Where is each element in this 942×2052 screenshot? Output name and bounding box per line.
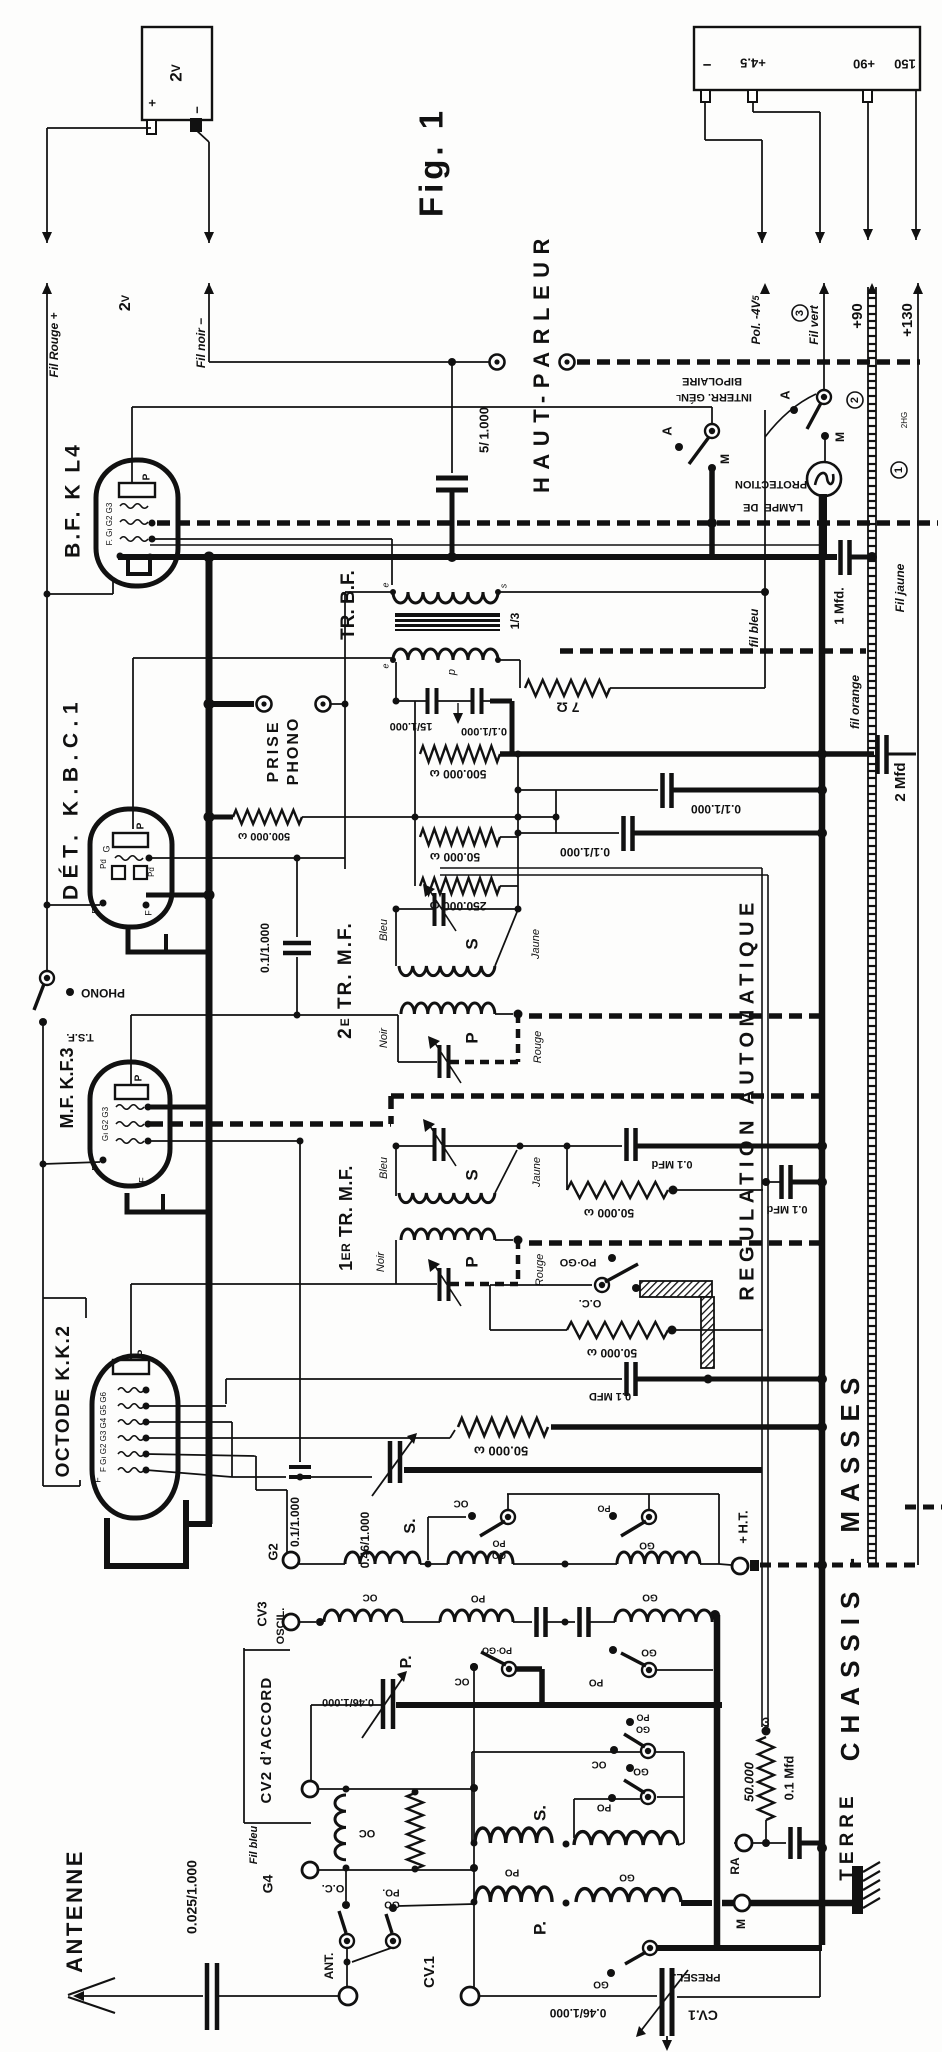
svg-text:fil orange: fil orange <box>848 675 862 729</box>
svg-text:O.C.: O.C. <box>322 1882 345 1894</box>
wire avc frame to cap <box>768 1181 780 1183</box>
trmf1 p trimmer <box>440 1268 449 1301</box>
wire fil noir down <box>208 142 210 243</box>
terminal G2 <box>283 1552 299 1568</box>
svg-text:CHASSIS - MASSES: CHASSIS - MASSES <box>835 1369 865 1762</box>
svg-text:7 Ω: 7 Ω <box>557 699 580 715</box>
KF3 plate lead <box>130 1015 132 1085</box>
g2 to coil <box>299 1563 345 1565</box>
terminal M <box>734 1895 750 1911</box>
ladder wire +90 orange <box>868 287 876 1563</box>
lever osc p1 <box>481 1652 506 1665</box>
svg-text:B.F. K L4: B.F. K L4 <box>62 442 85 558</box>
avc vertical 415 <box>414 701 416 886</box>
junction rail phono <box>204 699 215 710</box>
cv1 line right <box>677 1996 820 1998</box>
antenna barb 1 <box>68 1978 115 1995</box>
KBC1 G pin <box>146 855 153 862</box>
terminal HP right <box>560 355 575 370</box>
terminal CV2 bottom <box>302 1862 318 1878</box>
svg-text:CV.1: CV.1 <box>688 2007 718 2023</box>
trmf2 s trimmer <box>435 893 444 926</box>
TRBF P right pin <box>495 657 501 663</box>
KK2 g wire B drop <box>231 1422 233 1477</box>
junction rail 790 <box>817 785 827 795</box>
resistor 50.000 avc <box>420 829 500 845</box>
contact ant pogo <box>389 1904 397 1912</box>
trmf2 p dashed side <box>516 1014 521 1062</box>
KBC1 grid wire <box>149 857 345 859</box>
ant sw1 down <box>346 1948 348 1987</box>
terminal CV1 left <box>461 1987 479 2005</box>
junction rail 1843 <box>817 1843 827 1853</box>
contact M pole2 <box>821 432 829 440</box>
tube OCTODE K.K.2 <box>92 1356 178 1518</box>
lever ant sw2 <box>386 1914 392 1933</box>
lever interr pole2 <box>807 403 821 429</box>
resistor 7 ohm <box>525 680 610 696</box>
junction HT dash rail <box>817 1560 827 1570</box>
svg-text:F. Gı G2 G3: F. Gı G2 G3 <box>105 502 114 545</box>
junction avc frame cap <box>762 1178 770 1186</box>
svg-text:P: P <box>136 822 147 829</box>
wire 0.1Mfd to rail <box>636 1144 822 1149</box>
svg-text:Rouge: Rouge <box>534 1254 546 1286</box>
svg-text:15/1.000: 15/1.000 <box>390 720 433 732</box>
oc coil dot <box>632 1284 640 1292</box>
KL4 F pin right <box>147 554 154 561</box>
svg-text:M: M <box>833 432 847 442</box>
svg-text:F: F <box>90 1165 100 1171</box>
svg-text:Fil noir −: Fil noir − <box>194 318 208 368</box>
svg-text:3: 3 <box>794 310 806 316</box>
trmf1 p node <box>514 1236 523 1245</box>
switch ant 2 <box>386 1934 400 1948</box>
KL4 grid G3 <box>120 537 148 542</box>
svg-text:S: S <box>462 938 481 949</box>
svg-text:1 Mfd.: 1 Mfd. <box>831 587 846 625</box>
wire speaker top <box>209 361 489 363</box>
junction phono grid <box>342 701 349 708</box>
cv3 node <box>316 1618 324 1626</box>
wire 250k to 518 <box>500 885 518 887</box>
rail fil noir - <box>208 283 210 362</box>
svg-text:2HG: 2HG <box>900 412 909 428</box>
KK2 g wire D drop <box>255 1456 257 1490</box>
osc s1 stem <box>507 1494 509 1510</box>
contact po-go dot <box>608 1254 616 1262</box>
resistor 50.000 osc2 <box>567 1322 668 1338</box>
oc box top <box>490 1284 592 1286</box>
svg-text:P: P <box>134 1074 145 1081</box>
arrowhead Pol-4V5 up <box>760 283 770 294</box>
osc P coil 3 GO <box>615 1610 712 1622</box>
trmf1 p trimmer arrow <box>433 1263 461 1306</box>
g step 1379 <box>225 1379 227 1404</box>
trimmer cv2 0.46 <box>383 1679 393 1729</box>
trmf1 node 520 <box>517 1143 524 1150</box>
antenna OC coil <box>335 1795 346 1860</box>
wire rail to phono jack <box>209 701 254 707</box>
arrowhead +90 up <box>867 283 877 294</box>
avc frame right outer <box>761 868 763 1727</box>
sp inner v <box>573 1799 575 1838</box>
terminal CV2 top <box>302 1781 318 1797</box>
svg-text:+ H.T.: + H.T. <box>735 1510 750 1543</box>
switch osc p2 <box>642 1663 656 1677</box>
KK2 grid 1 <box>118 1388 144 1393</box>
node 415 1792 <box>412 1789 419 1796</box>
trmf1 s node <box>393 1143 400 1150</box>
res50 bottom lead <box>765 1820 767 1843</box>
KK2 g wire E <box>146 1470 232 1477</box>
svg-text:BIPOLAIRE: BIPOLAIRE <box>682 375 742 387</box>
wire coupling left up <box>395 662 397 701</box>
switch interr pole2 <box>817 390 831 404</box>
rail fil bleu <box>764 410 766 688</box>
wire TRBF P left up <box>392 658 394 660</box>
trmf1 s left side <box>395 1146 397 1196</box>
svg-text:Fil jaune: Fil jaune <box>893 563 907 612</box>
svg-text:PO·GO: PO·GO <box>559 1256 596 1268</box>
osc s mid node <box>425 1561 432 1568</box>
svg-text:0.46/1.000: 0.46/1.000 <box>322 1696 374 1708</box>
arrowhead fil noir <box>204 232 214 243</box>
varcap padding 0.46 <box>390 1441 400 1483</box>
lever osc s2 <box>621 1521 646 1536</box>
long cv line <box>473 1667 475 1996</box>
trmf2 P coil <box>401 1003 495 1014</box>
trmf1 p left <box>395 1240 397 1284</box>
svg-text:1: 1 <box>893 467 905 473</box>
svg-text:GO: GO <box>639 1539 655 1550</box>
svg-text:S: S <box>462 1169 481 1180</box>
A contact arc <box>765 394 816 437</box>
svg-text:F: F <box>90 908 100 914</box>
wire +4.5 bend <box>753 111 820 113</box>
wire TRBF P right <box>498 659 520 661</box>
cap det upper <box>296 858 298 937</box>
svg-text:INTERR. GÉNL: INTERR. GÉNL <box>676 391 752 404</box>
svg-text:TR. B.F.: TR. B.F. <box>338 570 359 640</box>
avc frame right inner <box>767 875 769 1727</box>
svg-text:150: 150 <box>894 57 916 72</box>
svg-text:Pol. -4V5: Pol. -4V5 <box>749 295 763 345</box>
wire battery- slant <box>196 130 209 142</box>
avc vertical 556 <box>555 790 557 833</box>
wire cap5000 upper <box>451 362 453 473</box>
junction tsf rail KF3 <box>40 1161 47 1168</box>
svg-text:GO: GO <box>593 1978 609 1989</box>
svg-text:Fil Rouge +: Fil Rouge + <box>47 312 61 377</box>
rail HT main <box>819 494 826 1945</box>
svg-text:P.: P. <box>398 1655 415 1668</box>
TRBF primary P <box>393 649 498 660</box>
svg-text:O.C.: O.C. <box>579 1297 602 1309</box>
wire 7ohm drop <box>519 660 521 688</box>
junction bus rail209 <box>204 552 215 563</box>
kf3 plate line <box>131 1014 398 1016</box>
svg-text:Rouge: Rouge <box>532 1031 544 1063</box>
svg-text:CV2 d’ACCORD: CV2 d’ACCORD <box>258 1677 275 1804</box>
trmf2 s node <box>393 906 400 913</box>
capacitor CV1 presel <box>662 1968 672 2036</box>
earth hatch 4 <box>863 1889 880 1899</box>
junction cap5000 bus <box>447 552 457 562</box>
trmf1 p dashed side <box>516 1240 521 1284</box>
rail tsf <box>42 1022 44 1486</box>
wire KL4 g3 drop <box>391 539 393 585</box>
trmf2 p trimmer <box>440 1045 449 1078</box>
wire KBC1 plate drop <box>132 658 134 829</box>
KK2 g wire C bend <box>450 1430 455 1438</box>
50k if right <box>669 1186 678 1195</box>
resistor 50.000 osc main <box>458 1418 548 1436</box>
KK2 grid 4 <box>118 1436 144 1441</box>
svg-text:OC: OC <box>455 1675 470 1686</box>
svg-text:OC: OC <box>454 1497 469 1508</box>
svg-text:F: F <box>143 910 153 916</box>
wire 0.1MFD to rail <box>636 1377 822 1382</box>
KL4 grid G1 <box>120 504 148 509</box>
trimmer cv2 arrow <box>362 1676 404 1738</box>
junction rail 895 <box>204 890 215 901</box>
svg-text:GO: GO <box>619 1871 635 1882</box>
g line 1379 <box>226 1378 622 1380</box>
wire 2Mfd right <box>887 753 916 756</box>
resistor 250.000 <box>420 878 500 894</box>
KL4 filament drop left <box>47 593 113 595</box>
dashed bus 1096 <box>391 1093 820 1099</box>
trmf1 S coil <box>399 1193 495 1203</box>
thick line 754 <box>500 751 874 757</box>
wire avc cap to rail <box>791 1180 822 1185</box>
terminal HP left <box>490 355 505 370</box>
HT battery box <box>694 27 920 90</box>
sp inner h <box>574 1798 640 1800</box>
contact A pole2 <box>790 406 798 414</box>
KBC1 grid <box>115 856 143 861</box>
hatched OC coil vert <box>701 1297 714 1368</box>
wire 50k osc to rail <box>551 1424 822 1430</box>
junction avc 556 <box>553 814 560 821</box>
svg-text:Gı G2 G3: Gı G2 G3 <box>101 1106 110 1141</box>
svg-text:fil bleu: fil bleu <box>747 608 761 647</box>
arrowhead fil vert up <box>819 283 829 294</box>
junction rail 1427 <box>817 1422 827 1432</box>
trmf2 s node right <box>515 906 522 913</box>
ant P coil PO <box>475 1887 552 1902</box>
KF3 fil arm <box>161 1194 165 1212</box>
svg-text:0.1/1.000: 0.1/1.000 <box>461 725 507 737</box>
osc P coil 2 <box>440 1610 513 1622</box>
svg-text:F Gı G2 G3 G4 G5 G6: F Gı G2 G3 G4 G5 G6 <box>99 1391 108 1472</box>
grid leak arrow line <box>457 703 459 722</box>
lever sp1 <box>624 1734 645 1747</box>
ra line <box>734 1842 786 1844</box>
svg-text:Jaune: Jaune <box>531 1157 543 1188</box>
osc p right node <box>710 1610 720 1620</box>
svg-text:ANTENNE: ANTENNE <box>62 1849 87 1973</box>
svg-text:F: F <box>92 1477 102 1483</box>
osc GO to HT <box>719 1564 731 1565</box>
lever osc p2 <box>621 1653 646 1666</box>
svg-text:GO: GO <box>636 1725 650 1735</box>
capacitor 0.1/1.000 coupling <box>473 688 482 714</box>
svg-text:OCTODE K.K.2: OCTODE K.K.2 <box>53 1325 74 1478</box>
trmf2 p dashed bottom <box>450 1060 518 1065</box>
node 474 1868 <box>470 1864 478 1872</box>
TRBF P left pin <box>390 657 396 663</box>
svg-text:Pd: Pd <box>147 867 156 877</box>
switch po-go oc <box>595 1278 609 1292</box>
svg-text:500.000 ω: 500.000 ω <box>430 767 487 781</box>
svg-text:2: 2 <box>849 397 861 403</box>
protection lamp <box>807 462 841 496</box>
wire battery+ to fil rouge <box>47 127 151 129</box>
svg-text:0.1 MFd: 0.1 MFd <box>652 1158 693 1170</box>
svg-text:M: M <box>718 454 732 464</box>
svg-text:0.1/1.000: 0.1/1.000 <box>258 923 272 973</box>
svg-text:0.025/1.000: 0.025/1.000 <box>184 1860 200 1934</box>
wire aux filament <box>150 544 820 546</box>
cv2 frame left <box>243 1648 245 1823</box>
KK2 grid 2 <box>118 1404 144 1409</box>
KK2 g wire B <box>146 1421 232 1423</box>
arrowhead fil noir return <box>204 283 214 294</box>
svg-text:e: e <box>380 663 390 668</box>
wire coupling left <box>396 700 426 702</box>
svg-text:50.000 ω: 50.000 ω <box>474 1444 528 1459</box>
wire sw1 to bus <box>709 468 715 560</box>
cv1 arrow tail <box>666 2036 668 2048</box>
capacitor 0.1 Mfd ant <box>791 1827 800 1859</box>
grid leak arrowhead <box>453 713 463 724</box>
junction sw1 bus523 <box>707 518 717 528</box>
TRBF core <box>395 613 500 631</box>
KL4 F pin left <box>117 553 124 560</box>
oc box left <box>489 1285 491 1330</box>
dashed masse top right <box>905 1505 942 1510</box>
earth hatch 5 <box>863 1898 880 1908</box>
wire -4V5 drop <box>704 102 706 140</box>
ant sw drop <box>345 1870 347 1901</box>
KBC1 diode plate right <box>134 866 147 879</box>
svg-text:CV3: CV3 <box>254 1601 269 1626</box>
svg-text:1/3: 1/3 <box>508 612 522 629</box>
battery + pin <box>147 120 156 134</box>
square pin +HT <box>750 1560 759 1571</box>
rail fil rouge + <box>46 283 48 971</box>
junction rail 1379 <box>817 1374 827 1384</box>
svg-text:Noir: Noir <box>378 1027 390 1049</box>
junction grid cap <box>294 855 301 862</box>
tube B.F. K L4 <box>96 460 178 586</box>
svg-text:2V: 2V <box>117 294 134 311</box>
KK2 grid pin 5 <box>143 1451 150 1458</box>
KBC1 F right <box>143 902 150 909</box>
switch sp2 <box>641 1790 655 1804</box>
osc s mid2 node <box>562 1561 569 1568</box>
svg-text:0.1 MFd: 0.1 MFd <box>767 1203 808 1215</box>
node 415 1869 <box>412 1866 419 1873</box>
wire 50k osc2 left <box>490 1329 567 1331</box>
osc cap to varcap <box>311 1476 372 1478</box>
wire 150 down <box>915 90 917 240</box>
ant node <box>344 1959 351 1966</box>
wire grid KL4 top <box>132 406 712 408</box>
cv2 trimmer left <box>311 1704 383 1706</box>
rail bottom elbow <box>186 1521 212 1527</box>
avc line 300 <box>299 1141 301 1462</box>
KL4 plate lead <box>131 407 133 483</box>
osc box stub left <box>428 1516 466 1518</box>
trmf2 s top right <box>445 908 518 910</box>
capacitor 0.1/1.000 osc <box>289 1467 311 1477</box>
octode label bracket side <box>85 1298 87 1318</box>
svg-text:50.000 ω: 50.000 ω <box>587 1346 637 1360</box>
KK2 grid pin 1 <box>143 1387 150 1394</box>
cap det lower <box>296 957 298 1015</box>
svg-text:OC: OC <box>363 1591 378 1602</box>
osc P coil 1 <box>324 1610 402 1622</box>
svg-text:LAMPE DE: LAMPE DE <box>743 501 803 513</box>
wire 50k osc2 right <box>676 1329 763 1331</box>
sw p1 to 542 <box>515 1666 542 1672</box>
TRBF S right pin <box>495 589 501 595</box>
wire to sw1 <box>711 407 713 424</box>
junction coupling <box>393 698 400 705</box>
thick chassis top bus <box>118 554 837 560</box>
dashed bus TRBF masse <box>560 648 866 654</box>
trmf1 p bottom <box>396 1283 437 1285</box>
node ra res <box>762 1839 770 1847</box>
contact tsf <box>39 1018 47 1026</box>
audio grid line vertical <box>344 592 346 869</box>
arrowhead -4V5 <box>757 232 767 243</box>
junction plate cap <box>294 1012 301 1019</box>
KF3 G3 pin <box>145 1104 152 1111</box>
resistor oc damp <box>407 1793 423 1869</box>
svg-text:G2: G2 <box>265 1543 280 1560</box>
svg-text:OC: OC <box>592 1758 607 1769</box>
wire TRBF S to grid line <box>345 591 393 593</box>
svg-text:PRISE: PRISE <box>265 719 282 782</box>
sp p mid node <box>563 1900 570 1907</box>
svg-text:−: − <box>702 56 711 73</box>
dashed +HT to masse <box>760 1563 920 1568</box>
osc S coil 3 GO <box>617 1552 700 1564</box>
junction 518 754 <box>515 751 522 758</box>
svg-text:TERRE: TERRE <box>837 1791 858 1880</box>
svg-text:Noir: Noir <box>375 1251 387 1273</box>
wire avc2 to rail <box>633 831 822 836</box>
svg-text:+: + <box>144 99 159 107</box>
svg-text:0.1 MFD: 0.1 MFD <box>589 1390 631 1402</box>
svg-text:Bleu: Bleu <box>378 1157 390 1179</box>
svg-text:PO: PO <box>589 1676 604 1687</box>
osc grid line thin <box>232 1476 286 1478</box>
KF3 filament loop <box>127 1193 209 1212</box>
svg-text:M: M <box>734 1919 748 1929</box>
KK2 grid 3 <box>118 1420 144 1425</box>
svg-text:PHONO: PHONO <box>81 986 125 1000</box>
svg-text:PO: PO <box>505 1866 520 1877</box>
svg-text:GO: GO <box>642 1591 658 1602</box>
terminal ANT <box>339 1987 357 2005</box>
svg-text:F: F <box>137 1177 147 1183</box>
KK2 grid 5 <box>118 1452 144 1457</box>
